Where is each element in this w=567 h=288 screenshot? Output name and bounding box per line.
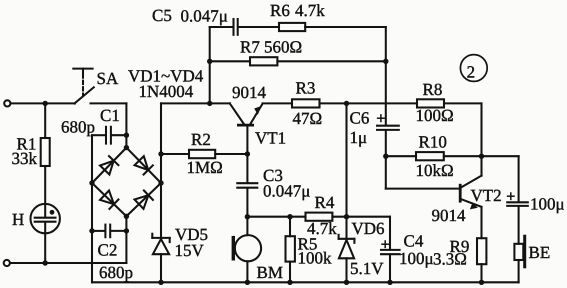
wire mic bias row — [247, 217, 390, 250]
node R7 left — [207, 59, 212, 64]
wire DC-minus column x92 — [91, 135, 93, 282]
label VT2 — [471, 186, 502, 205]
svg-text:100k: 100k — [298, 249, 333, 268]
svg-text:0.047μ: 0.047μ — [263, 182, 310, 201]
label R4 — [315, 193, 335, 212]
label R5 — [298, 235, 318, 254]
label VT1 — [255, 129, 286, 148]
switch SA — [73, 69, 94, 104]
resistor R7 — [210, 57, 386, 65]
svg-text:R4: R4 — [315, 193, 335, 212]
label R10 value 10k — [416, 161, 454, 180]
node bridge bottom — [124, 214, 129, 219]
svg-text:47Ω: 47Ω — [293, 109, 323, 128]
svg-text:1μ: 1μ — [350, 128, 368, 147]
node R1/line junction — [43, 101, 48, 106]
wire SA to bridge top — [91, 103, 127, 147]
label VD5 value 15V — [175, 241, 205, 260]
svg-text:R3: R3 — [296, 79, 316, 98]
capacitor C3 — [237, 154, 257, 217]
svg-text:100Ω: 100Ω — [416, 106, 454, 125]
svg-text:BE: BE — [529, 243, 551, 262]
svg-text:R10: R10 — [419, 133, 447, 152]
figure number 2 — [460, 55, 487, 82]
svg-text:1MΩ: 1MΩ — [187, 158, 223, 177]
node bridge left — [89, 180, 94, 185]
label VD5 — [175, 225, 208, 244]
svg-text:SA: SA — [97, 69, 119, 88]
capacitor C4 — [381, 250, 400, 282]
terminal (top-left input) — [4, 100, 10, 106]
zener VD6 — [339, 217, 355, 283]
node R2 left — [158, 151, 163, 156]
label C4 plus sign — [382, 241, 388, 247]
resistor R6 — [279, 23, 386, 31]
svg-text:VT1: VT1 — [255, 129, 286, 148]
label C2 — [98, 241, 118, 260]
label C1 — [100, 106, 120, 125]
resistor R1 — [41, 103, 50, 203]
node supply/C5 junction — [207, 101, 212, 106]
node VD6 bottom rail — [344, 280, 349, 285]
microphone BM — [233, 217, 261, 283]
svg-text:C5: C5 — [152, 6, 172, 25]
resistor R4 — [306, 213, 333, 221]
svg-text:C2: C2 — [98, 241, 118, 260]
node bridge right — [158, 180, 163, 185]
svg-text:680p: 680p — [99, 263, 133, 282]
node R9 bottom rail — [479, 280, 484, 285]
label R9 value 3.3 — [433, 250, 467, 269]
label R2 — [191, 130, 211, 149]
capacitor C7 output 100u — [507, 156, 528, 244]
wire terminal to SA — [11, 102, 75, 104]
node C1 right — [124, 133, 129, 138]
svg-text:1N4004: 1N4004 — [139, 82, 194, 101]
capacitor C6 — [377, 126, 399, 189]
label R1 value 33k — [12, 149, 38, 168]
label 1N4004 — [139, 82, 194, 101]
label R7 — [240, 38, 260, 57]
node R5 top — [287, 214, 292, 219]
label R3 value 47 — [293, 109, 323, 128]
resistor R10 — [386, 152, 519, 160]
label VD6 — [352, 219, 385, 238]
svg-text:R8: R8 — [423, 80, 443, 99]
node R5 bottom rail — [287, 280, 292, 285]
transistor VT1 — [230, 103, 263, 154]
capacitor C2 — [92, 225, 126, 238]
svg-text:560Ω: 560Ω — [264, 38, 302, 57]
label C6 plus sign — [378, 115, 385, 122]
label C7 value 100u — [530, 195, 565, 214]
label H — [12, 210, 24, 229]
label BE — [529, 243, 551, 262]
svg-text:100μ: 100μ — [530, 195, 565, 214]
resistor R3 — [263, 99, 417, 107]
label R8 — [423, 80, 443, 99]
resistor R2 — [161, 150, 247, 158]
svg-text:C6: C6 — [350, 109, 370, 128]
svg-text:680p: 680p — [61, 118, 95, 137]
label C1 value 680p — [61, 118, 95, 137]
label 9014 (VT2) — [432, 206, 467, 225]
resistor R9 — [477, 238, 486, 282]
label R2 value 1M — [187, 158, 223, 177]
node VD6 top junction — [344, 214, 349, 219]
node bridge top — [124, 145, 129, 150]
node VD5 bottom rail — [158, 280, 163, 285]
svg-text:100μ: 100μ — [399, 249, 434, 268]
label C5 — [152, 6, 172, 25]
label R8 value 100 — [416, 106, 454, 125]
node H bottom junction — [43, 260, 48, 265]
terminal (bottom-left input) — [4, 260, 10, 266]
node BM bottom rail — [245, 280, 250, 285]
label VD6 value 5.1V — [350, 259, 384, 278]
resistor R8 — [417, 99, 482, 175]
node C3 bottom junction — [245, 214, 250, 219]
svg-text:VT2: VT2 — [471, 186, 502, 205]
diode VD3 (bottom-left arm) — [100, 191, 118, 209]
receiver H — [31, 204, 60, 263]
wire VT2 base from C6 — [386, 188, 459, 190]
node C2 left — [89, 228, 94, 233]
label R5 value 100k — [298, 249, 333, 268]
label R6 — [270, 1, 290, 20]
label SA — [97, 69, 119, 88]
svg-text:0.047μ: 0.047μ — [181, 7, 228, 26]
node R2 right / VT1 base — [245, 151, 250, 156]
diode VD1 (top-left arm) — [100, 156, 118, 174]
node C4 bottom rail — [387, 280, 392, 285]
label C4 value 100u — [399, 249, 434, 268]
svg-text:15V: 15V — [175, 241, 205, 260]
wire C5/R7 column x209.7 — [209, 27, 211, 103]
resistor R5 — [286, 217, 295, 283]
zener VD5 — [152, 183, 169, 282]
label R3 — [296, 79, 316, 98]
label C5 value 0.047u — [181, 7, 228, 26]
svg-text:33k: 33k — [12, 149, 38, 168]
svg-text:C1: C1 — [100, 106, 120, 125]
node C2 right — [124, 228, 129, 233]
node C6/R10 junction — [383, 154, 388, 159]
node R10 right / VT2 collector — [479, 154, 484, 159]
svg-text:5.1V: 5.1V — [350, 259, 384, 278]
label VD1~VD4 — [128, 67, 204, 86]
label C3 value 0.047u — [263, 182, 310, 201]
label C6 — [350, 109, 370, 128]
node R6/R7 junction — [383, 59, 388, 64]
svg-text:4.7k: 4.7k — [295, 1, 325, 20]
label C4 — [404, 232, 424, 251]
wire VD6 column x346.5 — [345, 103, 347, 216]
node R3/R4 rail junction — [344, 101, 349, 106]
wire R6/R7 column x386 — [385, 27, 387, 126]
label R10 — [419, 133, 447, 152]
label R7 value 560 — [264, 38, 302, 57]
diode VD2 (top-right arm) — [135, 156, 153, 174]
label R9 — [450, 237, 470, 256]
svg-text:VD6: VD6 — [352, 219, 385, 238]
wire bottom terminal to bridge bottom — [10, 216, 126, 263]
svg-text:R7: R7 — [240, 38, 260, 57]
transistor VT2 — [460, 176, 481, 239]
bridge rectifier VD1-VD4 — [92, 148, 161, 217]
svg-text:R6: R6 — [270, 1, 290, 20]
capacitor C5 — [210, 19, 279, 35]
label C6 value 1u — [350, 128, 368, 147]
svg-text:C4: C4 — [404, 232, 424, 251]
label C3 — [263, 166, 283, 185]
svg-text:10kΩ: 10kΩ — [416, 161, 454, 180]
svg-text:BM: BM — [257, 263, 283, 282]
wire DC-plus column x161 — [161, 103, 230, 183]
label C7 plus sign — [508, 193, 514, 199]
svg-text:9014: 9014 — [232, 83, 267, 102]
capacitor C1 — [92, 127, 126, 144]
label C2 value 680p — [99, 263, 133, 282]
svg-text:2: 2 — [467, 63, 476, 82]
label BM — [257, 263, 283, 282]
svg-text:9014: 9014 — [432, 206, 467, 225]
label R1 — [17, 135, 37, 154]
wire bottom rail — [92, 281, 519, 283]
earphone BE — [514, 236, 524, 282]
svg-text:R2: R2 — [191, 130, 211, 149]
svg-text:H: H — [12, 210, 24, 229]
label R6 value 4.7k — [295, 1, 325, 20]
svg-text:3.3Ω: 3.3Ω — [433, 250, 467, 269]
label R4 value 4.7k — [307, 219, 337, 238]
diode VD4 (bottom-right arm) — [135, 191, 153, 209]
label 9014 (VT1) — [232, 83, 267, 102]
